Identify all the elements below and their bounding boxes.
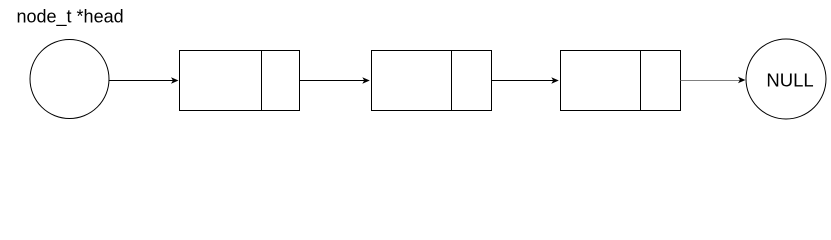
NULL circle [746,39,826,119]
node1 box [180,51,300,111]
arrowhead node2 to node3 [551,77,559,84]
svg-text:NULL: NULL [766,69,813,90]
node2 divider [451,51,453,111]
node1 divider [261,51,263,111]
arrowhead node3 to NULL [738,77,746,84]
node2 box [372,51,492,111]
wire node3 to NULL [681,80,740,82]
wire node1 to node2 [300,80,364,82]
wire node2 to node3 [492,80,554,82]
node3 divider [640,51,642,111]
arrowhead head to node1 [171,77,179,84]
head pointer circle [30,40,109,119]
svg-text:node_t *head: node_t *head [17,6,124,27]
wire head to node1 [109,80,173,82]
node3 box [561,51,681,111]
arrowhead node1 to node2 [362,77,370,84]
